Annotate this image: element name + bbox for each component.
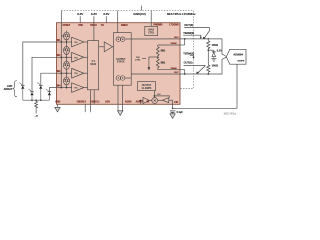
ADC AD9094 — [226, 49, 246, 64]
supply stub VDDO — [93, 16, 95, 23]
svg-text:CLAMPS: CLAMPS — [142, 87, 152, 90]
svg-text:CTRL: CTRL — [148, 32, 155, 35]
wire VDDO into mux — [93, 23, 95, 41]
pin label PWRMD — [154, 25, 163, 27]
clamp stub down CL3 — [66, 69, 68, 74]
clamp stub up CL3 — [66, 57, 68, 61]
wire CM pin — [172, 100, 174, 108]
label TERM(2) bottom — [183, 51, 194, 55]
brace APD array — [13, 81, 17, 97]
wire CMSEL0 — [85, 90, 90, 112]
svg-text:TIA: TIA — [74, 87, 78, 90]
svg-text:TIA: TIA — [74, 56, 78, 59]
svg-text:−V: −V — [35, 115, 38, 118]
node B zener tap — [207, 49, 209, 64]
label GM CTRL — [135, 57, 141, 62]
op-amp TIA1 — [72, 37, 84, 47]
clamp rail jog to circles — [61, 35, 63, 37]
label 3.3V VDD — [77, 12, 83, 16]
pin label IN4 — [57, 84, 61, 87]
svg-text:STAGE: STAGE — [117, 61, 125, 64]
svg-text:CTRL: CTRL — [135, 60, 141, 62]
svg-text:ARRAY: ARRAY — [4, 88, 13, 91]
wire IN3 row — [57, 72, 72, 74]
label OUT(2) bottom — [184, 61, 193, 65]
svg-text:CMSEL0: CMSEL0 — [77, 102, 87, 104]
label 0.1uF — [177, 111, 184, 114]
capacitor C1 0.1uF — [170, 111, 175, 114]
svg-text:OUTPUT: OUTPUT — [142, 85, 152, 87]
label -V bias — [35, 115, 38, 118]
ground GND pin — [55, 104, 60, 112]
label 5.1V — [217, 49, 223, 53]
wire IN1 external — [23, 42, 57, 85]
svg-text:OUT: OUT — [174, 72, 179, 74]
wire ADC VCM out — [236, 64, 238, 108]
resistor R2 100 — [207, 65, 210, 75]
pin label IN3 — [57, 71, 61, 73]
svg-text:OUT(2): OUT(2) — [184, 23, 193, 27]
label 1.5V — [157, 94, 162, 96]
clamp stub down CL4 — [66, 85, 68, 88]
node A — [207, 38, 209, 40]
op-amp CM left — [139, 97, 151, 103]
wire to ADC plus — [208, 39, 226, 57]
wire DMUX pin to output stage — [117, 23, 119, 33]
wire CMSEL1 — [90, 90, 94, 112]
svg-text:AGND: AGND — [125, 101, 132, 104]
wire IN1 row — [57, 41, 72, 43]
label 3.3V VDDO — [91, 12, 97, 16]
wire TIA3 to MUX — [84, 72, 88, 74]
diode Z1 zener 5.1V — [212, 52, 216, 59]
wire MUX to buffer — [99, 46, 105, 48]
wire TERM(2) arrow top — [183, 35, 202, 39]
resistor RT1 50 — [156, 45, 159, 56]
wire IN3 external — [41, 73, 57, 85]
wire PWRMD to bias control — [150, 23, 152, 27]
input clamp circle CL3 — [64, 61, 70, 69]
supply stub TO — [105, 16, 107, 23]
clamp stub down CL1 — [66, 40, 68, 43]
resistor R bias — [35, 101, 38, 114]
label 100R bottom — [212, 63, 218, 67]
label 100R top — [212, 43, 218, 47]
wire to ADC minus — [208, 57, 226, 74]
summer circle — [152, 98, 158, 104]
svg-text:CMSEL1: CMSEL1 — [90, 102, 100, 104]
wire OUT internal bottom — [125, 74, 180, 78]
svg-text:50Ω: 50Ω — [161, 61, 166, 64]
svg-text:1GSPS: 1GSPS — [237, 60, 245, 62]
output clamps box — [138, 82, 156, 91]
wire TERM join top — [180, 39, 185, 45]
wire IN4 row — [57, 87, 72, 89]
input clamp circle CL2 — [64, 46, 70, 54]
clamp stub up CL4 — [66, 73, 68, 77]
svg-text:VDD: VDD — [78, 25, 83, 27]
pin label OUT bottom — [174, 72, 179, 74]
photodiode D2 APD — [28, 89, 33, 100]
bias control box — [145, 26, 158, 35]
input clamp circle CL4 — [64, 77, 70, 85]
output stage box — [113, 33, 131, 85]
wire zener branch — [208, 50, 214, 52]
supply stub VDD — [79, 16, 81, 23]
wire OUT external bottom — [180, 73, 208, 75]
wire TERM(2) arrow bottom — [190, 55, 195, 59]
svg-text:TERM(2): TERM(2) — [183, 51, 194, 55]
svg-text:GND(C2): GND(C2) — [133, 12, 146, 16]
wire CM node — [172, 107, 237, 109]
svg-text:TERM: TERM — [170, 68, 176, 70]
clamp stub up CL1 — [66, 31, 68, 32]
wire OUT(2) top — [184, 28, 209, 31]
pin label TO bottom — [105, 101, 110, 104]
pin label AGND2 — [136, 101, 143, 104]
pin label TO — [101, 25, 104, 27]
pin label IN1 — [57, 40, 61, 42]
svg-text:6561 TA01a: 6561 TA01a — [224, 113, 237, 116]
pin label GND — [55, 102, 60, 104]
pin label CM — [174, 102, 178, 104]
node C — [207, 73, 209, 75]
wire IN4 external — [49, 88, 56, 92]
op-amp TIA2 — [72, 53, 84, 63]
wire 1.5V node — [154, 96, 169, 98]
svg-text:AGND: AGND — [136, 101, 143, 104]
wire DMUX to dashed bus — [117, 11, 119, 23]
label APD ARRAY — [4, 85, 13, 91]
wire IN2 row — [57, 56, 72, 58]
label TERM(2) top — [183, 31, 194, 35]
pin label TERM top — [170, 43, 176, 45]
pin label OPSET — [62, 25, 70, 27]
op-amp buffer A1 — [104, 42, 112, 52]
svg-text:TERM(2): TERM(2) — [183, 31, 194, 35]
svg-text:AD9094: AD9094 — [233, 52, 243, 56]
op-amp CM right — [158, 98, 173, 103]
svg-text:0.1µF: 0.1µF — [177, 111, 184, 114]
svg-text:3.3V: 3.3V — [103, 12, 109, 16]
ground AGND — [118, 111, 123, 116]
svg-text:MULTIPLE LTC6561s: MULTIPLE LTC6561s — [167, 12, 196, 16]
svg-text:MUX: MUX — [90, 62, 96, 66]
pin label VDD — [78, 25, 83, 27]
wire clamps to summer — [154, 91, 156, 98]
pin label LTDGND — [169, 25, 179, 27]
resistor R1 100 — [207, 40, 210, 49]
svg-text:LTDGND: LTDGND — [169, 25, 179, 27]
svg-text:3.3V: 3.3V — [91, 12, 97, 16]
svg-text:OUT(2): OUT(2) — [184, 61, 193, 65]
svg-text:100Ω: 100Ω — [212, 63, 218, 67]
label 3.3V TO — [103, 12, 109, 16]
switch S1 blade — [203, 31, 210, 39]
label GND(C2) — [133, 12, 146, 16]
resistor RT2 50 — [156, 56, 159, 68]
APD common anode rail — [23, 99, 50, 101]
svg-text:OPSET: OPSET — [62, 25, 70, 27]
wire OUT internal top — [125, 38, 180, 40]
wire TIA4 to MUX — [84, 87, 88, 89]
wire TERM bottom internal — [158, 68, 180, 69]
output stage top mirror — [116, 37, 125, 42]
svg-text:5.1V: 5.1V — [217, 49, 223, 53]
svg-text:50Ω: 50Ω — [161, 50, 166, 53]
photodiode D1 APD — [19, 82, 24, 100]
switch S2 blade — [196, 66, 205, 74]
wire buffer to output stage — [112, 46, 115, 48]
clamp stub up CL2 — [66, 42, 68, 46]
mux 4:1 MUX — [88, 41, 99, 90]
photodiode D3 APD — [37, 82, 42, 100]
wire TERM join bottom — [180, 70, 185, 74]
pin label IN2 — [57, 55, 61, 57]
svg-text:TO: TO — [101, 25, 104, 27]
wire OUT(2) bottom — [184, 65, 206, 67]
figure id — [224, 113, 237, 116]
svg-text:CM: CM — [174, 102, 178, 104]
output stage bottom mirror — [116, 76, 125, 81]
svg-text:1.5V: 1.5V — [157, 94, 162, 96]
pin label OUT top — [174, 37, 179, 39]
wire OUT external top — [180, 38, 208, 40]
dashed bus box MULTIPLE LTC6561s — [61, 11, 196, 89]
wire TIA1 to MUX — [84, 41, 88, 43]
wire PWRMD to dashed bus — [150, 11, 152, 23]
clamp rail from OPSET — [60, 23, 62, 89]
pin label TERM bottom — [170, 68, 176, 70]
svg-text:IN: IN — [147, 102, 150, 104]
wire IN2 external — [32, 57, 57, 92]
op-amp TIA3 — [72, 68, 84, 78]
svg-text:OUT: OUT — [174, 37, 179, 39]
LTC6561 IC body — [57, 23, 181, 105]
svg-text:TIA: TIA — [74, 72, 78, 75]
svg-text:3.3V: 3.3V — [77, 12, 83, 16]
current source arrow — [148, 56, 159, 70]
svg-text:AG0: AG0 — [105, 101, 110, 104]
ground zener — [211, 59, 216, 62]
pin label IN bottom — [147, 102, 150, 104]
pin label VDDO — [90, 25, 97, 27]
pin label CMSEL0 — [77, 102, 87, 104]
wire OPSET to dashed bus — [60, 11, 62, 23]
ground C1 — [170, 114, 175, 119]
wire AGND pair — [118, 85, 122, 111]
stub GND above bus — [141, 6, 143, 11]
svg-text:GND: GND — [55, 102, 60, 104]
photodiode D4 APD — [46, 89, 51, 100]
svg-text:TERM: TERM — [170, 43, 176, 45]
svg-text:DMUX: DMUX — [121, 25, 128, 27]
pin label AGND1 — [125, 101, 132, 104]
wire TIA2 to MUX — [84, 56, 88, 58]
label OUT(2) top — [184, 23, 193, 27]
svg-text:TIA: TIA — [74, 41, 78, 44]
wire VOCM pin stub — [139, 101, 141, 105]
pin label CMSEL1 — [90, 102, 100, 104]
label 50R bottom — [161, 61, 166, 64]
op-amp TIA4 — [72, 83, 84, 93]
svg-text:100Ω: 100Ω — [212, 43, 218, 47]
label 50R top — [161, 50, 166, 53]
pin label DMUX — [121, 25, 128, 27]
wire TERM top internal — [158, 44, 180, 46]
clamp stub down CL2 — [66, 54, 68, 58]
wire gm ctrl — [142, 58, 146, 60]
input clamp circle CL1 — [64, 32, 70, 40]
